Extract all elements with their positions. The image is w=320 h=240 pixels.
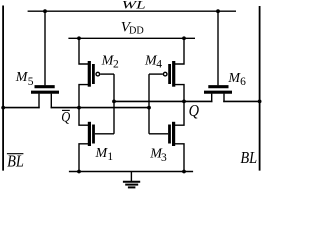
word line WL [28, 10, 236, 12]
svg-text:1: 1 [107, 151, 113, 163]
svg-text:Q: Q [61, 110, 70, 126]
bit line rail BL-bar (left vertical) [2, 6, 4, 171]
bit line rail BL (right vertical) [259, 6, 261, 171]
junction Q-bar / inverter drains [77, 106, 81, 110]
label VDD [121, 20, 144, 37]
svg-text:M: M [95, 146, 109, 161]
junction VDD / M2 source [77, 36, 81, 40]
node Q-bar wire (main segment) [51, 107, 149, 109]
label Q-bar [61, 110, 70, 126]
transistor M1 (NMOS, left inverter) [79, 108, 114, 172]
wire M6 gate lead (WL down) [217, 11, 219, 85]
svg-text:Q: Q [189, 101, 199, 120]
junction Q-bar / BL-bar rail [1, 106, 5, 110]
svg-text:5: 5 [28, 76, 34, 88]
transistor M3 (NMOS, right inverter) [149, 101, 184, 171]
label M2 [101, 53, 119, 70]
transistor M4 (PMOS, right inverter) [149, 38, 184, 101]
transistor M6 (access, horizontal) [204, 87, 232, 102]
transistor M5 (access, horizontal) [31, 87, 59, 109]
wire cross-couple line A (gates of M2/M1 to Q) [113, 74, 115, 134]
label M4 [144, 54, 162, 71]
junction ground / M1 source [77, 170, 81, 174]
svg-text:6: 6 [240, 76, 246, 88]
VDD rail [68, 37, 195, 39]
node Q-bar wire (left segment to rail) [3, 107, 40, 109]
svg-text:3: 3 [161, 152, 167, 164]
svg-text:DD: DD [129, 26, 144, 37]
svg-text:BL: BL [240, 148, 257, 167]
junction ground / M3 source [182, 170, 186, 174]
transistor M2 (PMOS, left inverter) [79, 38, 114, 107]
label M1 [95, 146, 114, 163]
svg-text:M: M [15, 70, 29, 85]
svg-text:BL: BL [7, 152, 24, 171]
junction WL / M5 gate [43, 9, 47, 13]
svg-text:2: 2 [113, 59, 119, 71]
ground [123, 172, 140, 188]
svg-text:WL: WL [122, 0, 146, 12]
label BL-bar [7, 152, 24, 171]
label M6 [227, 71, 246, 88]
svg-text:4: 4 [156, 58, 162, 70]
label M5 [15, 70, 34, 88]
junction WL / M6 gate [216, 9, 220, 13]
junction VDD / M4 source [182, 36, 186, 40]
wire M5 gate lead (WL down) [44, 11, 46, 85]
node Q wire (right segment to rail) [223, 100, 259, 102]
junction Q / inverter drains [182, 100, 186, 104]
label M3 [149, 146, 167, 164]
junction Q-bar / cross-couple line B [147, 106, 151, 110]
junction Q / BL rail [258, 100, 262, 104]
junction Q / cross-couple line A [112, 100, 116, 104]
wire cross-couple line B (gates of M4/M3 to Q-bar) [148, 74, 150, 134]
node Q wire (main segment) [114, 100, 213, 102]
ground bus wire [69, 171, 193, 173]
